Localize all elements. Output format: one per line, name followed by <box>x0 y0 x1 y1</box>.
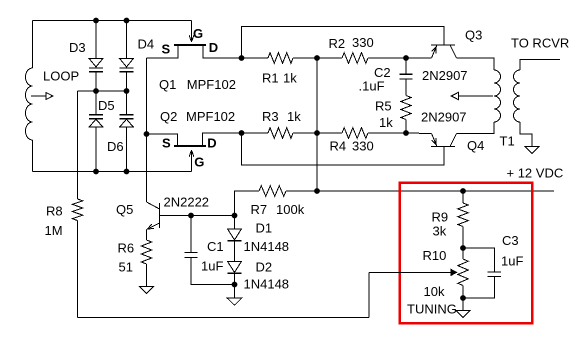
svg-text:D2: D2 <box>256 260 273 275</box>
varactor diode D4 <box>120 59 134 72</box>
wire Q1 drain to Q3 base (top route) <box>242 26 445 58</box>
node dot R10 bottom / C3 node <box>460 295 466 301</box>
svg-text:1N4148: 1N4148 <box>244 277 290 292</box>
wire D4 to mid node <box>126 72 128 91</box>
svg-text:330: 330 <box>352 35 374 50</box>
svg-text:Q3: Q3 <box>465 28 482 43</box>
node dot D4/D6 junction <box>124 88 130 94</box>
wire R10 top lead <box>462 248 464 259</box>
svg-text:D4: D4 <box>138 37 155 52</box>
wire +12 VDC rail <box>317 190 554 192</box>
svg-text:D: D <box>209 40 218 55</box>
svg-text:TUNING: TUNING <box>407 302 457 317</box>
node dot R3/R4/bus node <box>314 130 320 136</box>
capacitor C2 <box>399 74 412 79</box>
diode D2 <box>228 262 242 274</box>
wire output node to Q3 emitter <box>406 57 432 59</box>
resistor R3 <box>268 128 293 139</box>
wire R8 bottom lead <box>77 221 79 318</box>
svg-text:R3: R3 <box>262 109 279 124</box>
svg-text:1k: 1k <box>379 115 393 130</box>
svg-text:D3: D3 <box>69 40 86 55</box>
wire R10 bottom lead <box>462 286 464 299</box>
wire R3 left lead <box>242 132 269 134</box>
ground symbol at D2 <box>227 298 241 305</box>
wire bottom-left rail (LOOP bottom to Q2 gate) <box>33 171 192 173</box>
node dot Q2 drain node <box>239 130 245 136</box>
node dot Q5 base / D1 / R7 node <box>232 213 238 219</box>
wire Q2 drain lead <box>203 133 242 146</box>
wire R1 right lead <box>293 57 317 59</box>
svg-text:Q5: Q5 <box>116 202 133 217</box>
svg-text:2N2222: 2N2222 <box>164 195 210 210</box>
LOOP tap arrow <box>31 92 53 99</box>
potentiometer R10 <box>458 259 468 286</box>
node dot D2/C1 ground node <box>232 282 238 288</box>
wire bottom ground-return rail <box>78 316 370 318</box>
ground symbol at TUNING pot <box>456 311 470 318</box>
wire Q4 collector to T1 primary bottom <box>457 122 495 134</box>
inductor LOOP antenna <box>26 21 33 172</box>
svg-text:+ 12 VDC: + 12 VDC <box>507 166 564 181</box>
wire Q1 source to vertical bus <box>147 45 179 58</box>
svg-text:D: D <box>207 136 216 151</box>
diode D1 <box>228 229 242 241</box>
wire D4 top lead <box>126 21 128 59</box>
resistor R4 <box>342 128 368 139</box>
svg-text:.1uF: .1uF <box>359 79 385 94</box>
transistor Q1 MPF102 JFET <box>174 21 206 46</box>
transistor Q2 MPF102 JFET <box>174 146 206 172</box>
wire R9 bottom lead <box>462 227 464 249</box>
wire R4 left lead <box>317 132 342 134</box>
svg-text:51: 51 <box>119 260 133 275</box>
wire R3 right lead <box>293 132 317 134</box>
transistor Q5 2N2222 NPN <box>147 202 161 230</box>
svg-text:1uF: 1uF <box>201 259 223 274</box>
svg-text:MPF102: MPF102 <box>187 77 236 92</box>
wire R4 right lead <box>368 132 406 134</box>
wire top rail (LOOP top to Q1 gate) <box>33 20 192 22</box>
wire Q5 base line <box>160 215 235 217</box>
svg-text:S: S <box>162 136 171 151</box>
svg-text:R10: R10 <box>423 248 447 263</box>
svg-text:R7: R7 <box>251 202 268 217</box>
wire C2 top lead <box>405 58 407 74</box>
ground symbol at R6 <box>139 286 153 293</box>
wire Q1/Q2 source bus down to Q5 collector <box>146 58 148 202</box>
svg-text:LOOP: LOOP <box>43 68 79 83</box>
transformer T1 secondary winding <box>514 70 521 122</box>
wire D2 bottom lead <box>234 273 236 298</box>
node dot R9/R10 node <box>460 245 466 251</box>
wire Q5 emitter to R6 <box>146 230 148 241</box>
node dot R2/C2 output node <box>403 55 409 61</box>
wire R7 right lead <box>286 190 317 192</box>
wire T1 secondary bottom to ground <box>520 122 532 147</box>
wire R10 wiper feedback down <box>368 272 370 317</box>
varactor diode D6 <box>120 91 134 127</box>
svg-text:1k: 1k <box>287 109 301 124</box>
svg-text:C1: C1 <box>207 239 224 254</box>
wire bus R1-node down to +12 rail <box>316 58 318 191</box>
svg-text:R2: R2 <box>329 36 346 51</box>
svg-text:R6: R6 <box>118 241 135 256</box>
wire C2 to R5 <box>405 79 407 96</box>
node dot D6 at bottom rail <box>124 169 130 175</box>
ground symbol at T1 secondary <box>525 147 539 154</box>
svg-text:1N4148: 1N4148 <box>244 239 290 254</box>
node dot R4/R5 output node <box>403 130 409 136</box>
resistor R8 <box>72 199 82 221</box>
red highlight box (tuning section) <box>400 183 532 323</box>
resistor R5 <box>401 96 411 120</box>
node dot C1 top <box>188 213 194 219</box>
wire D1 to D2 <box>234 241 236 262</box>
T1 primary center tap arrow (+12V feed) <box>451 92 493 99</box>
svg-text:100k: 100k <box>276 202 305 217</box>
svg-text:T1: T1 <box>500 134 515 149</box>
resistor R6 <box>141 240 151 264</box>
transistor Q3 2N2907 PNP <box>431 45 457 58</box>
wire D5 bottom lead <box>95 127 97 171</box>
node dot top rail at D3 <box>93 18 99 24</box>
wire Q2 source lead <box>147 134 178 146</box>
node dot +12 rail at bus <box>314 188 320 194</box>
wire R10 bottom to ground <box>462 298 464 311</box>
wire R9 top lead <box>462 191 464 203</box>
svg-text:10k: 10k <box>424 284 445 299</box>
varactor diode D5 <box>89 91 103 127</box>
svg-text:R9: R9 <box>432 210 449 225</box>
wire C1 bottom lead <box>191 258 235 285</box>
svg-text:R1: R1 <box>262 71 279 86</box>
wire mid link y=91 <box>78 90 127 92</box>
wire R7 left lead and drop <box>235 191 260 216</box>
wire Q3 collector to T1 primary top <box>457 58 495 70</box>
resistor R1 <box>268 53 293 64</box>
node dot D5 at bottom rail <box>93 169 99 175</box>
svg-text:Q2: Q2 <box>160 109 177 124</box>
svg-text:G: G <box>193 26 203 41</box>
resistor R7 <box>259 186 286 197</box>
wire R5 bottom lead <box>405 120 407 134</box>
node dot D3/D5 junction <box>93 88 99 94</box>
svg-text:MPF102: MPF102 <box>186 109 235 124</box>
node dot sources junction <box>144 131 150 137</box>
resistor R2 <box>342 53 368 64</box>
wire Q2 drain to Q4 base (bottom route) <box>242 133 445 165</box>
svg-text:2N2907: 2N2907 <box>422 68 468 83</box>
svg-text:S: S <box>162 41 171 56</box>
R10 wiper arrow <box>369 269 457 275</box>
svg-text:D5: D5 <box>98 98 115 113</box>
svg-text:C3: C3 <box>502 233 519 248</box>
wire Q1 drain lead <box>203 45 242 58</box>
wire T1 secondary top to receiver <box>520 60 560 71</box>
svg-text:330: 330 <box>352 139 374 154</box>
transistor Q4 2N2907 PNP <box>431 134 457 147</box>
node dot R1/R2/bus node <box>314 55 320 61</box>
svg-text:D6: D6 <box>107 139 124 154</box>
svg-text:Q4: Q4 <box>467 138 484 153</box>
varactor diode D3 <box>89 59 103 72</box>
node dot Q1 drain node <box>239 55 245 61</box>
transformer T1 primary winding <box>494 70 501 122</box>
svg-text:R8: R8 <box>46 204 63 219</box>
svg-text:R5: R5 <box>375 99 392 114</box>
resistor R9 <box>458 203 468 227</box>
svg-text:TO RCVR: TO RCVR <box>511 36 569 51</box>
svg-text:R4: R4 <box>330 139 347 154</box>
wire D3 top lead <box>95 21 97 59</box>
svg-text:Q1: Q1 <box>159 77 176 92</box>
svg-text:1k: 1k <box>283 71 297 86</box>
wire R2 right lead <box>368 57 406 59</box>
svg-text:3k: 3k <box>433 224 447 239</box>
node dot top rail at D4 <box>124 18 130 24</box>
capacitor C3 with loop wiring <box>463 248 501 298</box>
wire D6 bottom lead <box>126 127 128 171</box>
svg-text:1uF: 1uF <box>501 254 523 269</box>
capacitor C1 <box>184 252 197 257</box>
wire R8 top lead <box>77 91 79 199</box>
wire R1 left lead <box>242 57 269 59</box>
svg-text:D1: D1 <box>256 221 273 236</box>
wire R6 bottom lead <box>146 264 148 286</box>
svg-text:2N2907: 2N2907 <box>421 110 467 125</box>
svg-text:G: G <box>194 155 204 170</box>
wire R2 left lead <box>317 57 342 59</box>
wire lower output node to Q4 emitter <box>406 132 432 135</box>
node dot +12 rail at R9 <box>460 188 466 194</box>
wire C1 top lead <box>190 216 192 253</box>
wire D1 top lead <box>234 216 236 230</box>
wire D3 to mid node <box>95 72 97 91</box>
svg-text:1M: 1M <box>45 223 63 238</box>
